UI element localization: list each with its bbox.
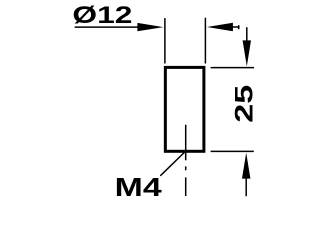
extension line top of 25 dim: [211, 67, 254, 69]
dimension tail right: [231, 26, 240, 28]
dimension arrowhead bottom pointing up: [242, 153, 250, 179]
dimension arrow bottom shaft: [245, 178, 247, 196]
dimension tail end tick: [238, 25, 240, 29]
arrowhead Ø12 pointing left: [207, 23, 233, 31]
extension line right: [204, 18, 206, 64]
svg-text:Ø12: Ø12: [72, 2, 132, 29]
centerline dot: [185, 166, 187, 170]
dimension arrow top shaft: [246, 27, 248, 42]
svg-text:M4: M4: [115, 172, 163, 200]
dimension arrowhead top pointing down: [243, 40, 251, 66]
arrowhead Ø12 pointing right: [137, 23, 163, 31]
svg-text:25: 25: [231, 85, 259, 123]
leader line for M4: [160, 151, 186, 176]
centerline dash bottom: [185, 177, 187, 196]
dimension line Ø12: [75, 26, 140, 28]
extension line bottom of 25 dim: [211, 150, 254, 152]
centerline dash long: [185, 125, 187, 161]
cylinder body outline: [165, 67, 204, 151]
extension line left: [164, 18, 166, 63]
